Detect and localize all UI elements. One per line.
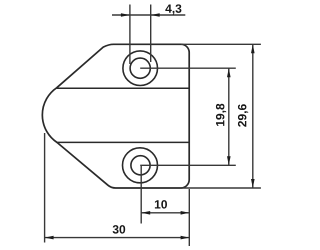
dim 30 label [113, 225, 126, 234]
dim 4,3 arrow right [151, 13, 160, 17]
dim 4,3 label [165, 4, 181, 14]
dim 30 extension line left [44, 133, 46, 243]
bend edge line lower [57, 141, 189, 143]
hole bottom inner circle [131, 156, 150, 175]
hole bottom outer circle [123, 148, 158, 183]
dim 10 dimension line [141, 212, 189, 214]
dim 4,3 dimension line [112, 14, 185, 16]
extension line from top hole center to right [140, 67, 236, 69]
dim 29,6 extension line bottom [181, 187, 261, 189]
dim 10 label [155, 200, 167, 209]
dim 19,8 arrow top [227, 68, 231, 77]
hole top outer circle [123, 51, 158, 86]
dim 10 arrow left [141, 211, 150, 215]
dim 10 extension line right (edge extended) [188, 189, 190, 246]
dim 19,8 dimension line [228, 68, 230, 165]
dim 29,6 extension line top [181, 43, 261, 45]
dim 29,6 dimension line [252, 44, 254, 188]
dim 30 dimension line [45, 237, 190, 239]
dim 30 arrow left [45, 236, 54, 240]
dim 4,3 extension line right [150, 5, 152, 63]
extension line from bottom hole center down [140, 165, 142, 223]
dim 4,3 arrow left [121, 13, 130, 17]
dim 29,6 arrow bottom [251, 179, 255, 188]
bend edge line upper [57, 87, 190, 89]
dim 30 arrow right [181, 236, 190, 240]
dim 19,8 arrow bottom [227, 156, 231, 165]
hole top inner circle [130, 58, 150, 78]
plate outline [42, 44, 189, 188]
dim 29,6 label [238, 104, 248, 127]
dim 29,6 arrow top [251, 44, 255, 53]
extension line from bottom hole center to right [140, 164, 236, 166]
dim 4,3 extension line left [129, 5, 131, 65]
dim 19,8 label [216, 104, 226, 126]
dim 10 arrow right [181, 211, 190, 215]
